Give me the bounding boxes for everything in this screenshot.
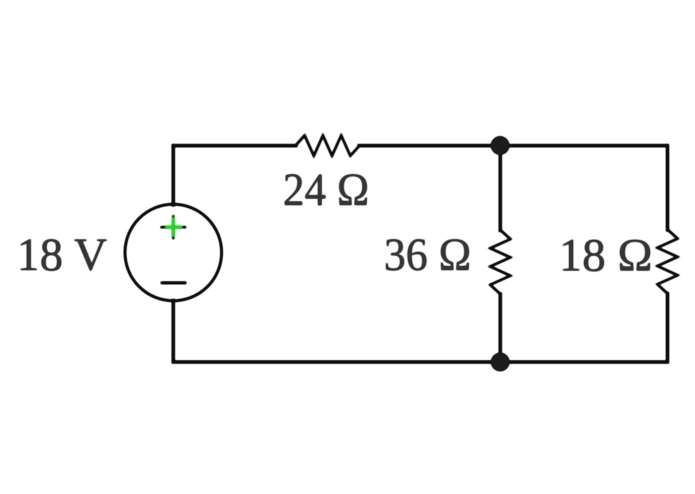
svg-text:36 Ω: 36 Ω: [384, 230, 471, 281]
svg-text:18 V: 18 V: [17, 230, 108, 281]
svg-text:18 Ω: 18 Ω: [559, 231, 653, 282]
svg-text:24 Ω: 24 Ω: [283, 165, 369, 216]
